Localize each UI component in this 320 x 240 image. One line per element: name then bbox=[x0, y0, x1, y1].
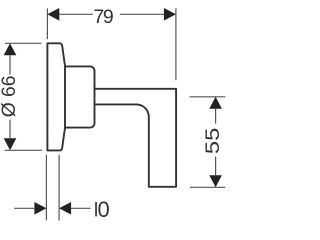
svg-text:79: 79 bbox=[93, 6, 113, 28]
svg-text:55: 55 bbox=[202, 128, 224, 155]
svg-text:Ø 66: Ø 66 bbox=[0, 76, 20, 118]
svg-text:0: 0 bbox=[98, 197, 110, 222]
